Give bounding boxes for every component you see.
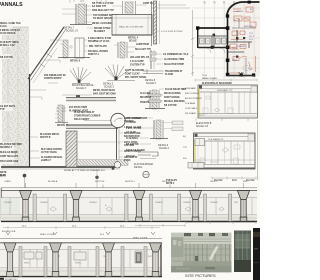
detail 6 labels (70, 37, 111, 63)
svg-text:SECTION: SECTION (95, 181, 105, 183)
plan dashed ellipse table (243, 65, 251, 70)
svg-text:1/2 EXT SHTG: 1/2 EXT SHTG (0, 106, 16, 108)
svg-text:WALK-IN COOLER UNIT: WALK-IN COOLER UNIT (119, 26, 144, 29)
svg-text:TYP: TYP (0, 109, 5, 111)
strip 1 column P2 (70, 191, 82, 222)
svg-text:5/8 GYP BD: 5/8 GYP BD (164, 105, 177, 107)
plan left dimension ticks (191, 10, 194, 76)
strip 1 bay diamonds (50, 207, 224, 212)
strip 2 bay mullions (30, 250, 130, 268)
soffit fan detail (105, 65, 135, 81)
fan detail notes right (125, 70, 147, 79)
svg-text:LOBBY: LOBBY (4, 181, 12, 183)
svg-text:EIFS CORNICE: EIFS CORNICE (185, 93, 200, 95)
elevation A body (198, 85, 258, 118)
strip 1 narrow pilasters (33, 194, 232, 221)
svg-text:2X PT BLOCKING: 2X PT BLOCKING (125, 70, 144, 72)
elevation A title block (202, 75, 218, 80)
plan red annotation arcs (229, 47, 247, 58)
floor line of wall section (1, 167, 120, 169)
strip elevation 1 cornice ticks (26, 183, 244, 188)
elevation B label (196, 122, 212, 128)
strip 2 column Q2 (50, 243, 62, 277)
svg-text:SIGN BAND TYP: SIGN BAND TYP (217, 89, 233, 92)
svg-text:SCALE 1-8: SCALE 1-8 (196, 125, 209, 128)
elevation A sub label (202, 82, 232, 85)
svg-text:BASE AS SCHED: BASE AS SCHED (126, 149, 145, 152)
svg-text:6 18GA METAL STUD: 6 18GA METAL STUD (88, 37, 111, 40)
svg-text:EXIT: EXIT (148, 256, 153, 258)
svg-text:ELEV: ELEV (0, 175, 6, 177)
plan purple notes cluster (232, 33, 255, 50)
svg-text:DINING: DINING (236, 11, 243, 13)
small callout circle lower (112, 162, 121, 170)
small note right of circle (166, 180, 178, 185)
svg-text:TENANT: TENANT (210, 201, 219, 204)
svg-text:AT 16 OC: AT 16 OC (126, 131, 137, 134)
svg-text:SCALE 3: SCALE 3 (159, 147, 170, 150)
svg-text:DETAIL: DETAIL (134, 166, 143, 169)
svg-text:SOFFIT B: SOFFIT B (40, 137, 51, 139)
elevation A dimension line (195, 79, 257, 82)
elevation B left leader labels (183, 136, 188, 160)
svg-text:SHOWN LT: SHOWN LT (0, 147, 13, 149)
svg-text:TENANT: TENANT (183, 201, 192, 204)
plan columns (196, 1, 255, 77)
svg-text:BLK SIGN CONTRL: BLK SIGN CONTRL (41, 149, 63, 151)
strip 2 column Q1 (4, 243, 16, 277)
corner plan detail slab top (66, 125, 118, 129)
plan south wall segment (227, 75, 255, 77)
svg-text:R-19 BATT INSUL: R-19 BATT INSUL (0, 41, 20, 44)
tile edge labels (163, 53, 189, 76)
svg-text:5/8 GYP BD: 5/8 GYP BD (0, 57, 13, 59)
detail 4 vertical jamb (114, 42, 136, 58)
svg-text:SMALL CANE TILE: SMALL CANE TILE (0, 22, 21, 25)
strip 2 storefront boxes (24, 251, 142, 263)
svg-text:IN-LINE A: IN-LINE A (48, 180, 58, 183)
small note left above strip (0, 172, 7, 178)
mounting fan detail left (70, 67, 91, 84)
plan interior partitions right (228, 30, 252, 52)
label background patches on wall (0, 19, 14, 164)
svg-text:WC-2: WC-2 (249, 36, 255, 38)
wall section right-side labels (40, 75, 66, 162)
svg-text:SITE PICTURES: SITE PICTURES (185, 273, 216, 278)
svg-text:TEN: TEN (234, 202, 239, 204)
svg-text:END: END (243, 181, 248, 183)
roof curb detail top (112, 1, 146, 14)
plan east core wall (227, 15, 229, 76)
svg-text:PREP: PREP (232, 60, 238, 62)
strip elevation 2 dimension arrows (6, 232, 155, 235)
svg-text:AT DECK: AT DECK (126, 121, 136, 124)
flat bulkhead detail label (134, 163, 153, 169)
strip 2 column Q4 (150, 243, 162, 277)
svg-text:CONT SEALANT: CONT SEALANT (0, 155, 19, 158)
svg-text:FIN GRADE: FIN GRADE (185, 112, 197, 115)
plan curved wall (227, 2, 260, 16)
svg-text:TO DECK ABOVE: TO DECK ABOVE (93, 17, 112, 20)
plan west wall (197, 27, 199, 48)
callout circle below bulkhead (143, 171, 149, 177)
strip 1 column P5 (238, 191, 250, 222)
svg-text:DETAIL 4: DETAIL 4 (128, 37, 139, 40)
svg-text:16 OC BRACE: 16 OC BRACE (0, 32, 16, 35)
svg-text:PAINT P-1: PAINT P-1 (88, 53, 100, 56)
svg-text:SHOP B-1: SHOP B-1 (125, 181, 136, 183)
svg-text:SHELL: SHELL (75, 263, 82, 265)
svg-text:JAMB LT: JAMB LT (41, 159, 51, 162)
floor plan grid bubbles (204, 2, 236, 4)
elevation A small ticks below (196, 118, 248, 121)
strip 2 bottom left label mark (0, 278, 18, 280)
plan interior red equipment lines (230, 7, 256, 73)
elevation A left leader labels (185, 87, 203, 115)
strip 1 bay signs text (4, 201, 239, 207)
svg-text:TENANT: TENANT (4, 201, 13, 204)
detail 7 drawing (62, 1, 92, 25)
svg-text:CONTIN SOFFIT: CONTIN SOFFIT (44, 78, 62, 80)
strip 2 bay texts (24, 255, 153, 265)
photo C dark interior (253, 228, 260, 280)
svg-text:SCALE 3: SCALE 3 (146, 82, 157, 85)
mounting fan apex (78, 80, 81, 83)
title PANNALS (0, 2, 23, 8)
strip elevation 2 bay field (0, 239, 162, 277)
svg-text:WD BLOCKING: WD BLOCKING (164, 93, 181, 95)
svg-text:SCALE 1-8: SCALE 1-8 (237, 75, 249, 78)
strip 1 glass tint left bay (1, 198, 176, 215)
strip 1 column P1 (20, 191, 32, 222)
svg-text:FIN: FIN (183, 158, 187, 160)
strip 1 column P4 (190, 191, 202, 222)
svg-text:4 CLG SUSP: 4 CLG SUSP (130, 60, 144, 63)
toilet room walls (198, 36, 228, 48)
svg-text:BM WRAP: BM WRAP (140, 96, 152, 99)
svg-text:SYSTEM TYP: SYSTEM TYP (130, 65, 145, 67)
photo B glazing (234, 231, 251, 273)
left margin text labels (0, 22, 22, 177)
svg-text:FIN FLR: FIN FLR (126, 156, 135, 158)
detail 9 drawing (150, 120, 183, 139)
svg-text:PAINT GRADE: PAINT GRADE (164, 96, 180, 99)
svg-text:REVEAL MOLDING: REVEAL MOLDING (164, 100, 185, 103)
floor plan grid (192, 1, 260, 79)
svg-text:5/8 GYP BD: 5/8 GYP BD (126, 144, 139, 146)
strip 2 column Q3 (103, 243, 115, 277)
svg-text:STOREFRONT CORNER: STOREFRONT CORNER (74, 116, 101, 118)
svg-text:CONT CLEAT: CONT CLEAT (125, 73, 140, 76)
plan blue text annotations (232, 8, 253, 71)
svg-text:NOTE 2: NOTE 2 (166, 183, 175, 185)
slab notes (74, 89, 116, 121)
plumbing wall labels (57, 106, 89, 127)
floor plan background tint (228, 3, 260, 76)
wall section W1 stippled concrete wall (2, 27, 30, 167)
corner detail callout circle (111, 113, 125, 127)
top edge cut marks (70, 0, 106, 3)
svg-text:METAL CLOSURE: METAL CLOSURE (92, 22, 112, 25)
svg-text:R-19 INSUL: R-19 INSUL (126, 138, 139, 140)
svg-text:DBL TOP PLATE: DBL TOP PLATE (89, 45, 107, 48)
svg-text:SHELL: SHELL (24, 263, 31, 265)
detail 7 note labels (92, 3, 119, 33)
corner detail bottom label (64, 169, 106, 172)
wire leader lines on section (1, 40, 62, 158)
sloped canopy line of wall section (28, 27, 66, 83)
svg-text:SOUND ATTEN: SOUND ATTEN (94, 27, 111, 30)
svg-text:BLACKED METAL: BLACKED METAL (40, 133, 60, 136)
svg-text:BAR JOIST BEYOND: BAR JOIST BEYOND (93, 93, 116, 96)
left plumbing wall assembly (55, 105, 68, 123)
svg-text:FRAMING AT 16 OC: FRAMING AT 16 OC (88, 40, 110, 43)
svg-text:PILASTER BEYOND: PILASTER BEYOND (0, 143, 22, 146)
strip 2 door dark (136, 253, 141, 263)
svg-text:FIN FLOOR LINE: FIN FLOOR LINE (0, 161, 19, 163)
svg-text:MTL RUNNER: MTL RUNNER (126, 118, 141, 120)
section marker circle (23, 174, 27, 188)
detail room plan box (112, 15, 152, 36)
strip elevation 2 labels above (40, 234, 148, 240)
soffit fan apex block (115, 77, 118, 81)
toilet fixtures (200, 38, 227, 44)
upper slab double line (66, 98, 116, 101)
svg-text:SERVICE: SERVICE (244, 26, 253, 28)
svg-text:FIN WALL BOARD: FIN WALL BOARD (88, 50, 108, 53)
svg-text:FIRE SEALANT TYP: FIRE SEALANT TYP (92, 9, 114, 12)
corner plan detail glazing line (77, 128, 128, 167)
svg-text:SHOP B-2: SHOP B-2 (162, 181, 173, 183)
svg-text:TRANSITION AT: TRANSITION AT (165, 70, 183, 73)
svg-text:PANNALS: PANNALS (0, 2, 23, 8)
flat bulkhead detail drawing (138, 152, 158, 159)
svg-text:SCALE 1-0: SCALE 1-0 (66, 30, 79, 33)
dimension line above photos (135, 221, 256, 227)
svg-text:24 GA: 24 GA (0, 25, 7, 28)
svg-text:DETAIL AT TYP WINDOW FRAMING S: DETAIL AT TYP WINDOW FRAMING SILL (64, 169, 106, 172)
svg-text:SHELL STORE: SHELL STORE (40, 234, 55, 236)
svg-text:24 OC: 24 OC (124, 159, 131, 162)
svg-text:PANEL SCHED: PANEL SCHED (202, 77, 218, 80)
svg-text:SIGN BAND: SIGN BAND (185, 87, 197, 90)
detail 6 drawing (58, 38, 90, 58)
svg-text:1/2 COMMERCIAL TILE: 1/2 COMMERCIAL TILE (163, 53, 189, 56)
svg-text:MTL SOFFIT PANEL: MTL SOFFIT PANEL (125, 76, 147, 79)
svg-text:SEALANT TYP: SEALANT TYP (135, 48, 151, 51)
strip 1 bay mullions (10, 198, 252, 215)
window head line (84, 120, 112, 122)
tile edge detail mid (143, 50, 163, 74)
svg-text:ELEVATION AT SIGN BAND: ELEVATION AT SIGN BAND (202, 82, 232, 85)
second section marker (95, 169, 98, 188)
svg-text:TENANT: TENANT (89, 201, 98, 204)
elevation B bottom dimension texts (214, 180, 255, 182)
svg-text:SHOP C: SHOP C (210, 181, 218, 183)
svg-text:5/8 TYPE X GYP BD: 5/8 TYPE X GYP BD (92, 3, 114, 5)
svg-text:METAL ROOF DECK: METAL ROOF DECK (93, 89, 115, 92)
svg-text:JAMB TRIM: JAMB TRIM (136, 43, 149, 46)
photo A construction interior (171, 233, 232, 272)
mounting detail label (72, 84, 95, 90)
svg-text:ALUM EDGE TRIM: ALUM EDGE TRIM (164, 58, 184, 61)
svg-text:FLOOR: FLOOR (165, 74, 173, 76)
svg-text:FALSE BEAM TRIM: FALSE BEAM TRIM (165, 88, 186, 91)
elevation B corner boxes (188, 139, 205, 169)
clg susp note (130, 60, 145, 67)
fan detail label (103, 83, 115, 89)
plan name label (237, 72, 249, 78)
partition wall stub top mid (152, 1, 183, 46)
svg-text:IN WALL CAV: IN WALL CAV (0, 44, 15, 47)
strip elevation 1 bay field (1, 188, 257, 222)
detail 7 label (64, 27, 79, 33)
plan dark door blobs (213, 34, 246, 58)
svg-text:4 CLG SUSP SYSTEM: 4 CLG SUSP SYSTEM (161, 31, 183, 33)
svg-text:6 METAL STUD AT: 6 METAL STUD AT (0, 29, 21, 32)
svg-text:TL.B: TL.B (202, 75, 207, 77)
svg-text:FLASHING REVEAL: FLASHING REVEAL (41, 156, 63, 159)
svg-text:OUT BY BLDG: OUT BY BLDG (41, 152, 57, 154)
detail 8 lower labels (140, 88, 186, 107)
svg-text:KITCHEN: KITCHEN (236, 46, 245, 48)
plan interior thin partitions (228, 18, 256, 76)
svg-text:6 MTL STUDS: 6 MTL STUDS (126, 128, 141, 130)
site pictures caption (185, 273, 216, 278)
svg-text:EA SIDE TYP: EA SIDE TYP (92, 5, 107, 8)
svg-text:BLKG AS REQD: BLKG AS REQD (0, 151, 18, 154)
left margin label stack mid sheet (126, 118, 145, 158)
svg-text:TYP: TYP (183, 147, 188, 149)
corner detail right labels (124, 117, 148, 162)
strip elevation 1 labels above (4, 180, 248, 183)
svg-text:BLANKET: BLANKET (94, 30, 106, 33)
svg-text:2X6 FIREBLOCK W/: 2X6 FIREBLOCK W/ (44, 75, 66, 77)
toilet door arcs (206, 48, 225, 53)
strip 2 narrow pilasters (19, 247, 147, 277)
svg-text:ELEVATION A: ELEVATION A (2, 230, 16, 233)
svg-text:TRIM PC: TRIM PC (140, 102, 150, 104)
svg-text:12-0: 12-0 (232, 180, 237, 182)
svg-text:2X4 STUD FURR: 2X4 STUD FURR (69, 106, 87, 109)
detail room leaders going up (152, 1, 190, 44)
svg-text:TILE WAINSCOT: TILE WAINSCOT (208, 138, 224, 141)
svg-text:DETAIL 6: DETAIL 6 (70, 60, 81, 63)
detail 8 lower assembly (145, 90, 165, 109)
svg-text:SCHLUTER STRIP: SCHLUTER STRIP (164, 64, 184, 66)
detail 8 label (145, 79, 157, 85)
strip 1 column P3 (133, 191, 145, 222)
svg-text:EQ: EQ (183, 136, 186, 138)
strip 1 dimension row (3, 226, 160, 229)
svg-text:TENANT: TENANT (40, 201, 49, 204)
svg-text:HOLLOW MTL FR: HOLLOW MTL FR (130, 57, 150, 59)
svg-text:SCALE 3: SCALE 3 (104, 86, 115, 89)
svg-text:PLUMBING VENT: PLUMBING VENT (69, 111, 89, 113)
svg-text:NOTE: NOTE (0, 172, 7, 174)
svg-text:CLG LINE: CLG LINE (140, 93, 151, 95)
detail 1 above corner (62, 95, 92, 125)
right sheet edge vertical line (257, 120, 259, 180)
svg-text:SCALE: SCALE (129, 40, 137, 43)
svg-text:PLAN: PLAN (238, 72, 244, 75)
svg-text:TENANT: TENANT (155, 201, 164, 204)
plan north wall (197, 27, 228, 29)
svg-text:TILE BASE: TILE BASE (185, 102, 196, 105)
svg-text:CONC WALK: CONC WALK (185, 107, 198, 110)
detail 9 label (158, 144, 170, 150)
svg-text:SCALE 3: SCALE 3 (76, 87, 87, 90)
elevation B body (194, 133, 256, 169)
corner plan detail hatched pier (66, 131, 77, 167)
svg-text:ALUM STOREFRT: ALUM STOREFRT (185, 97, 203, 100)
